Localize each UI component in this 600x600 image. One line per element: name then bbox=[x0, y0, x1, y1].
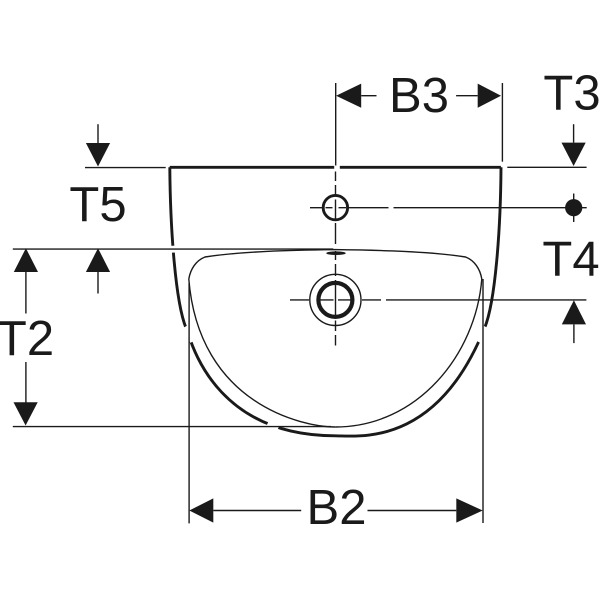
dimension T5 bottom arrow (up) bbox=[97, 272, 99, 294]
reference line through bowl rear plane (T5/T2 upper datum) bbox=[13, 248, 334, 250]
dimension B3 line left arrow bbox=[361, 95, 376, 97]
drain outer thin circle bbox=[310, 274, 361, 325]
T5 extension line at basin top edge bbox=[85, 167, 166, 169]
vertical centerline solid (B3 left extension) bbox=[335, 83, 337, 166]
drain horizontal line to right (T4 datum) bbox=[362, 299, 586, 301]
dimension T5 top arrow (down) bbox=[97, 124, 99, 143]
gap in bottom arc at B2 right extension bbox=[478, 327, 486, 342]
tap hole horizontal line to dimension dot bbox=[348, 207, 587, 209]
overflow slot mark bbox=[326, 251, 345, 255]
dimension B2 line right arrow bbox=[368, 510, 457, 512]
svg-text:T3: T3 bbox=[543, 66, 600, 120]
drain crosshair inside bbox=[317, 299, 354, 301]
dimension T4 arrow bbox=[573, 324, 575, 343]
dimension B3 right extension line bbox=[501, 83, 503, 162]
gap in bottom arc at T2 lower datum line crossing bbox=[268, 424, 279, 429]
dimension B2 right extension line bbox=[482, 279, 484, 523]
T3 extension line at basin top edge right bbox=[507, 166, 586, 168]
inner bowl right-bottom arc bbox=[335, 279, 482, 427]
gap in bottom arc at B2 left extension bbox=[185, 327, 193, 342]
vertical centerline dash-dot through tap and drain bbox=[335, 172, 337, 346]
washbasin outer contour: top edge bbox=[170, 166, 501, 169]
dimension T2 top arrow (up) bbox=[25, 272, 27, 314]
inner bowl left-bottom arc bbox=[189, 279, 335, 427]
svg-text:B2: B2 bbox=[307, 481, 367, 535]
washbasin outer contour: right side bbox=[485, 167, 501, 328]
dimension origin dot (tap hole datum) bbox=[573, 194, 575, 223]
washbasin outer contour: left side bbox=[170, 167, 186, 328]
dimension T2 bottom arrow (down) bbox=[25, 362, 27, 403]
reference line bowl front lowest point (T2 lower datum) bbox=[13, 426, 331, 428]
gap in top edge at centerline bbox=[334, 165, 340, 170]
dimension B2 left extension line bbox=[188, 283, 190, 523]
svg-text:B3: B3 bbox=[389, 69, 449, 123]
drain crosshair horizontal left tick bbox=[290, 299, 309, 301]
svg-text:T2: T2 bbox=[0, 312, 54, 366]
svg-text:T5: T5 bbox=[69, 178, 126, 232]
gap in left side at rear reference line bbox=[170, 246, 176, 253]
svg-text:T4: T4 bbox=[542, 232, 599, 286]
dimension T3 arrow bbox=[573, 124, 575, 142]
tap hole crosshair inside bbox=[326, 207, 347, 209]
drain bold circle bbox=[318, 283, 352, 317]
dimension B3 line right arrow bbox=[456, 95, 478, 97]
dimension B2 line left arrow bbox=[213, 510, 301, 512]
tap hole circle bbox=[323, 195, 347, 219]
tap hole crosshair horizontal left tick bbox=[310, 207, 324, 209]
inner bowl top edge bbox=[189, 250, 482, 279]
washbasin outer contour: bottom arc bbox=[186, 328, 485, 436]
